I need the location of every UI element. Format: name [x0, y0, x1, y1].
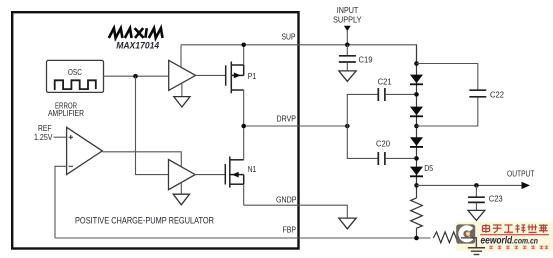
- watermark chinese title: [482, 224, 548, 233]
- POSITIVE CHARGE-PUMP REGULATOR title: [75, 216, 214, 226]
- node input supply on SUP: [345, 43, 350, 48]
- wire R2 to ground: [461, 238, 476, 248]
- FBP wire: [55, 237, 431, 239]
- watermark red underline: [480, 234, 549, 236]
- svg-text:N1: N1: [248, 164, 257, 174]
- ground symbol C19: [339, 71, 356, 81]
- svg-text:C23: C23: [489, 194, 503, 204]
- transistor N1 NMOS: [225, 157, 243, 188]
- svg-text:SUPPLY: SUPPLY: [333, 15, 362, 24]
- svg-text:INPUT: INPUT: [337, 6, 359, 15]
- node C23 on output: [474, 183, 479, 188]
- node chain bottom FBP: [414, 236, 419, 241]
- node chain top: [414, 61, 419, 66]
- DRVP wire: [244, 125, 348, 127]
- svg-text:OUTPUT: OUTPUT: [507, 169, 535, 179]
- charge pump diode chain wire: [416, 45, 418, 238]
- wire buffer A1 output to P1 gate: [196, 74, 226, 76]
- C21 label: [378, 77, 392, 87]
- earth ground feedback divider: [468, 248, 485, 255]
- MAXIM logo: [109, 28, 163, 38]
- svg-text:GNDP: GNDP: [276, 194, 297, 204]
- svg-text:D5: D5: [424, 163, 433, 173]
- OUTPUT label: [507, 169, 535, 179]
- node chain C22 return: [414, 124, 419, 129]
- C23 label: [489, 194, 503, 204]
- svg-text:AMPLIFIER: AMPLIFIER: [48, 109, 84, 118]
- svg-text:C21: C21: [378, 77, 392, 87]
- svg-text:FBP: FBP: [283, 224, 297, 234]
- FBP pin label: [283, 224, 297, 234]
- GNDP pin label: [276, 194, 297, 204]
- ground stub buffer A1: [181, 83, 183, 97]
- node junction OSC output: [133, 74, 138, 79]
- wire P1 source to SUP rail: [243, 45, 245, 65]
- ground symbol GNDP: [339, 218, 356, 229]
- wire N1 source down to GNDP: [243, 184, 245, 205]
- D5 label: [424, 163, 433, 173]
- N1 body arrow: [232, 172, 239, 178]
- node DRVP flying-cap junction: [345, 124, 350, 129]
- ground stub buffer A2: [180, 182, 182, 194]
- node chain output: [414, 183, 419, 188]
- wire FBP over logo to ground: [461, 238, 476, 248]
- node chain C20 tap: [414, 156, 419, 161]
- svg-text:C19: C19: [359, 55, 373, 65]
- REF 1.25V label: [34, 124, 53, 142]
- svg-text:POSITIVE CHARGE-PUMP REGULATOR: POSITIVE CHARGE-PUMP REGULATOR: [75, 216, 214, 226]
- wire REF to op-amp plus input: [54, 136, 67, 138]
- wire P1 drain down to DRVP node: [243, 90, 245, 126]
- capacitor C20 flying cap: [347, 126, 416, 165]
- wire OSC output to buffer A1 input: [104, 75, 169, 77]
- SUP rail wire: [181, 45, 417, 64]
- C20 label: [376, 139, 390, 149]
- diode D5: [410, 167, 423, 177]
- N1 label: [248, 164, 257, 174]
- watermark eeworld background: [456, 222, 553, 251]
- node P1 source on SUP: [241, 43, 246, 48]
- C19 label: [359, 55, 373, 65]
- ground symbol buffer A1: [174, 97, 190, 107]
- node DRVP at transistors: [241, 124, 246, 129]
- wire buffer A1 top edge to SUP rail: [180, 45, 182, 68]
- diode D1: [410, 75, 423, 85]
- OUTPUT arrow: [522, 182, 531, 189]
- ground symbol buffer A2: [173, 194, 189, 205]
- svg-text:DRVP: DRVP: [277, 113, 297, 123]
- resistor R2 (FBP divider bottom): [433, 232, 461, 243]
- svg-text:1.25V: 1.25V: [34, 133, 53, 142]
- IC box MAX17014 outline: [12, 12, 298, 248]
- resistor R1 (output to FBP divider top): [411, 198, 423, 228]
- svg-text:C20: C20: [376, 139, 390, 149]
- ground symbol C23: [468, 210, 485, 220]
- wire OSC junction down to buffer A2 input: [136, 76, 169, 174]
- transistor P1 PMOS: [226, 62, 244, 94]
- capacitor C23: [468, 185, 485, 210]
- svg-text:P1: P1: [248, 71, 257, 81]
- capacitor C22: [417, 64, 487, 127]
- diode D3: [410, 137, 423, 147]
- OUTPUT wire: [417, 184, 523, 186]
- wire buffer A2 output to N1 gate: [195, 174, 225, 176]
- wire op-amp output to buffer A2 top edge: [102, 152, 181, 167]
- capacitor C19: [339, 45, 356, 71]
- diode D2: [410, 107, 423, 117]
- DRVP pin label: [277, 113, 297, 123]
- GNDP wire: [244, 205, 348, 218]
- capacitor C21 flying cap: [347, 88, 416, 126]
- INPUT SUPPLY label: [333, 6, 362, 24]
- svg-text:REF: REF: [38, 124, 52, 133]
- ERROR AMPLIFIER label: [48, 101, 84, 118]
- svg-text:MAX17014: MAX17014: [116, 41, 160, 52]
- svg-text:SUP: SUP: [282, 31, 296, 41]
- svg-text:eeworld.com.cn: eeworld.com.cn: [481, 236, 539, 247]
- buffer driver A1 (high side): [169, 60, 196, 90]
- oscillator OSC block: [47, 60, 104, 92]
- svg-text:OSC: OSC: [68, 67, 82, 77]
- C22 label: [490, 89, 504, 99]
- node chain C21 tap: [414, 92, 419, 97]
- SUP pin label: [282, 31, 296, 41]
- op-amp U1 error amplifier: [67, 127, 103, 174]
- watermark logo square: [456, 224, 475, 243]
- P1 label: [248, 71, 257, 81]
- P1 body arrow: [234, 73, 241, 79]
- svg-text:C22: C22: [490, 89, 504, 99]
- feedback wire from FBP to op-amp minus input: [55, 166, 67, 238]
- buffer driver A2 (low side): [169, 160, 196, 190]
- wire N1 drain up to DRVP node: [243, 126, 245, 160]
- INPUT SUPPLY arrow: [344, 26, 351, 45]
- watermark small red slogan: [489, 246, 548, 250]
- watermark eeworld.com.cn text: [481, 236, 539, 247]
- MAX17014 part number: [116, 41, 160, 52]
